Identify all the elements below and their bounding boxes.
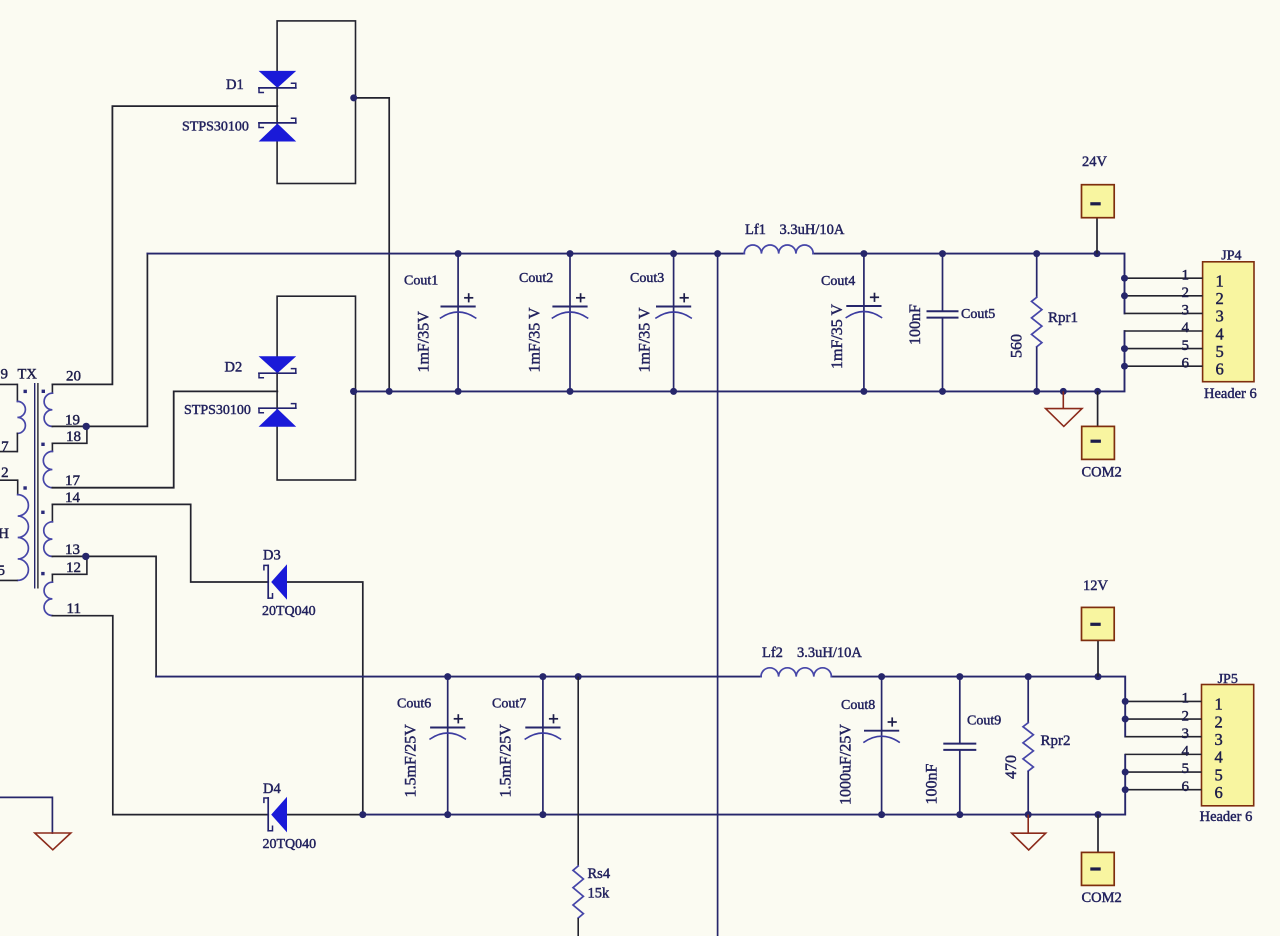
svg-text:Cout9: Cout9: [967, 714, 1001, 729]
svg-text:Cout5: Cout5: [961, 307, 995, 322]
svg-text:1000uF/25V: 1000uF/25V: [838, 724, 855, 805]
wire TX pin 9: [0, 383, 17, 385]
svg-text:Cout2: Cout2: [519, 271, 553, 286]
wire ground stub (24V section): [1062, 391, 1064, 408]
wire pin19 center tap: [52, 254, 147, 427]
svg-text:20TQ040: 20TQ040: [263, 837, 317, 852]
transformer TX core: [35, 383, 38, 589]
svg-text:5: 5: [1182, 338, 1190, 354]
TX phase dot winding 18-17: [41, 443, 44, 446]
svg-text:Lf1: Lf1: [745, 222, 766, 238]
wire D1 anodes to ground rail: [354, 98, 390, 392]
svg-text:3.3uH/10A: 3.3uH/10A: [797, 645, 862, 661]
TX winding pins 18-17: [43, 443, 52, 487]
TX pin label 13: [65, 542, 80, 558]
svg-text:5: 5: [1215, 765, 1223, 784]
capacitor Cout8: [838, 677, 900, 815]
TX label H: [0, 526, 9, 542]
TX winding pins 14-13: [44, 504, 53, 556]
wire 12V port stub: [1097, 640, 1099, 676]
junction pins 13-12: [82, 553, 89, 560]
svg-text:1mF/35 V: 1mF/35 V: [829, 304, 846, 370]
TX phase dot winding 20-19: [42, 390, 45, 393]
svg-text:9: 9: [1, 367, 9, 383]
svg-text:1.5mF/25V: 1.5mF/25V: [498, 724, 515, 798]
ground 24V section: [1046, 409, 1082, 427]
svg-text:5: 5: [1216, 342, 1224, 361]
svg-text:6: 6: [1216, 360, 1224, 379]
svg-text:1.5mF/25V: 1.5mF/25V: [403, 724, 420, 798]
svg-text:COM2: COM2: [1082, 464, 1122, 480]
capacitor Cout6: [397, 677, 465, 815]
TX pin label 19: [65, 412, 80, 428]
schottky diode D4: [263, 781, 317, 852]
svg-text:6: 6: [1182, 355, 1190, 371]
svg-text:1mF/35 V: 1mF/35 V: [527, 307, 544, 373]
wire pin11 to D4 cathode: [52, 616, 268, 815]
node +24V rail junctions: [455, 250, 1101, 257]
capacitor Cout7: [492, 677, 561, 815]
svg-text:20TQ040: 20TQ040: [262, 604, 316, 619]
svg-text:11: 11: [67, 601, 81, 617]
svg-text:5: 5: [1182, 761, 1190, 777]
TX winding pins 20-19: [44, 384, 52, 426]
wire TX pin 2: [0, 479, 18, 481]
wire +12V rail (left of Lf2): [156, 676, 761, 678]
wire TX pin 7: [0, 451, 17, 453]
TX pin label 17: [65, 473, 81, 489]
wire pin18 step: [52, 426, 87, 443]
TX left winding pins 9-7: [17, 384, 25, 451]
wire +24V rail (right of Lf1): [813, 254, 1124, 314]
TX phase dot winding 14-13: [41, 511, 44, 514]
TX pin label 5: [0, 563, 5, 579]
svg-text:Header 6: Header 6: [1200, 809, 1253, 825]
node +12V rail junctions: [444, 673, 1101, 680]
inductor Lf2: [761, 645, 862, 676]
svg-text:Cout7: Cout7: [492, 697, 526, 712]
svg-text:7: 7: [1, 439, 9, 455]
svg-text:13: 13: [65, 542, 80, 558]
inductor Lf1: [744, 222, 845, 254]
svg-text:24V: 24V: [1082, 154, 1108, 170]
svg-text:3: 3: [1216, 307, 1224, 326]
capacitor Cout2: [519, 254, 588, 392]
TX pin label 12: [66, 560, 81, 576]
TX left phase dot lower: [23, 486, 26, 489]
svg-text:STPS30100: STPS30100: [182, 120, 249, 135]
svg-text:560: 560: [1009, 334, 1026, 358]
svg-text:6: 6: [1182, 779, 1190, 795]
svg-text:Rs4: Rs4: [588, 866, 611, 882]
wire pin12 step: [52, 556, 87, 574]
node 24V ground rail junctions: [350, 388, 1101, 395]
wire 24V port stub: [1096, 218, 1098, 254]
junction pins 19-18: [83, 423, 90, 430]
power port COM2 (PCOM2a): [1082, 426, 1122, 480]
svg-text:D4: D4: [263, 781, 281, 797]
TX pin label 2: [1, 465, 9, 481]
resistor Rpr2: [1003, 677, 1071, 815]
capacitor Cout3: [630, 254, 691, 392]
transformer TX label: [18, 367, 38, 383]
wire ground stub (12V section): [1027, 815, 1029, 834]
svg-text:2: 2: [1216, 289, 1224, 308]
wire pin17 to D2 common cathode: [52, 391, 277, 487]
TX pin label 20: [66, 369, 81, 385]
resistor Rs4: [573, 677, 611, 936]
capacitor Cout1: [404, 254, 476, 392]
ground 12V section: [1012, 833, 1046, 850]
capacitor Cout9: [924, 677, 1002, 815]
TX pin label 14: [65, 490, 81, 506]
svg-text:4: 4: [1182, 320, 1190, 336]
svg-text:3: 3: [1215, 730, 1223, 749]
svg-text:Cout4: Cout4: [821, 274, 855, 289]
svg-text:Rpr2: Rpr2: [1041, 733, 1071, 749]
wire vertical feedback line: [717, 254, 719, 936]
svg-text:20: 20: [66, 369, 81, 385]
svg-text:100nF: 100nF: [924, 764, 941, 805]
dual schottky diode D1: [182, 21, 357, 184]
TX pin label 11: [67, 601, 81, 617]
ground left bottom: [35, 833, 71, 850]
svg-text:Rpr1: Rpr1: [1048, 310, 1078, 326]
connector JP4 (Header 6): [1121, 248, 1257, 402]
dual schottky diode D2: [184, 296, 357, 480]
capacitor Cout4: [821, 254, 882, 392]
wire to left ground: [0, 797, 52, 833]
svg-text:D2: D2: [225, 359, 243, 375]
wire pin13 to +12V rail: [52, 556, 156, 676]
TX pin label 18: [66, 429, 81, 445]
wire D3 anode to ground rail: [287, 582, 363, 815]
svg-text:6: 6: [1215, 783, 1223, 802]
svg-text:STPS30100: STPS30100: [184, 403, 251, 418]
svg-text:4: 4: [1182, 744, 1190, 760]
resistor Rpr1: [1009, 254, 1079, 392]
svg-text:D1: D1: [226, 77, 244, 93]
svg-text:3.3uH/10A: 3.3uH/10A: [780, 222, 845, 238]
power port COM2 (PCOM2b): [1082, 852, 1122, 905]
svg-text:Header 6: Header 6: [1204, 386, 1257, 402]
svg-text:3: 3: [1182, 303, 1190, 319]
TX pin label 9: [1, 367, 9, 383]
svg-text:470: 470: [1003, 755, 1020, 779]
node 12V ground rail junctions: [359, 811, 1101, 818]
svg-text:JP4: JP4: [1221, 248, 1241, 263]
svg-text:1mF/35 V: 1mF/35 V: [637, 307, 654, 373]
svg-text:3: 3: [1182, 726, 1190, 742]
wire +12V rail (right of Lf2): [831, 677, 1125, 737]
TX left phase dot upper: [24, 390, 27, 393]
wire TX pin 5: [0, 579, 18, 581]
svg-text:2: 2: [1215, 712, 1223, 731]
svg-text:2: 2: [1182, 285, 1190, 301]
power port 12V (P12): [1082, 578, 1115, 640]
wire COM2 stub (24V): [1097, 391, 1099, 426]
wire pin14 to D3 cathode: [52, 504, 268, 582]
svg-text:Cout3: Cout3: [630, 271, 664, 286]
wire COM2 stub (12V): [1097, 815, 1099, 853]
svg-text:D3: D3: [263, 548, 281, 564]
svg-text:1: 1: [1216, 272, 1224, 291]
wire D4 anode segment: [287, 814, 363, 816]
svg-text:2: 2: [1, 465, 9, 481]
svg-text:COM2: COM2: [1082, 890, 1122, 906]
TX left winding pins 2-5: [18, 480, 29, 580]
capacitor Cout5: [907, 254, 995, 392]
svg-text:1mF/35V: 1mF/35V: [416, 311, 433, 373]
svg-text:Lf2: Lf2: [762, 645, 783, 661]
svg-text:4: 4: [1215, 748, 1223, 767]
TX winding pins 12-11: [44, 574, 52, 615]
svg-text:JP5: JP5: [1218, 672, 1238, 687]
svg-text:15k: 15k: [588, 886, 611, 902]
power port 24V (P24): [1082, 154, 1115, 218]
svg-text:2: 2: [1182, 708, 1190, 724]
svg-text:Cout8: Cout8: [841, 698, 875, 713]
svg-text:1: 1: [1182, 267, 1190, 283]
svg-text:5: 5: [0, 563, 5, 579]
schottky diode D3: [262, 548, 316, 619]
svg-text:Cout6: Cout6: [397, 697, 431, 712]
svg-text:100nF: 100nF: [907, 304, 924, 345]
connector JP5 (Header 6): [1122, 672, 1254, 825]
wire pin20 to D1 common cathode: [52, 106, 277, 384]
svg-text:1: 1: [1182, 691, 1190, 707]
wire 12V ground rail: [363, 755, 1125, 815]
svg-text:4: 4: [1216, 324, 1224, 343]
svg-text:TX: TX: [18, 367, 38, 383]
svg-text:H: H: [0, 526, 9, 542]
svg-text:Cout1: Cout1: [404, 273, 438, 288]
svg-text:12V: 12V: [1083, 578, 1109, 594]
svg-text:1: 1: [1215, 695, 1223, 714]
TX phase dot winding 12-11: [41, 572, 44, 575]
wire 24V ground rail: [354, 331, 1125, 391]
wire +24V rail (left of Lf1): [147, 253, 744, 255]
TX pin label 7: [1, 439, 9, 455]
